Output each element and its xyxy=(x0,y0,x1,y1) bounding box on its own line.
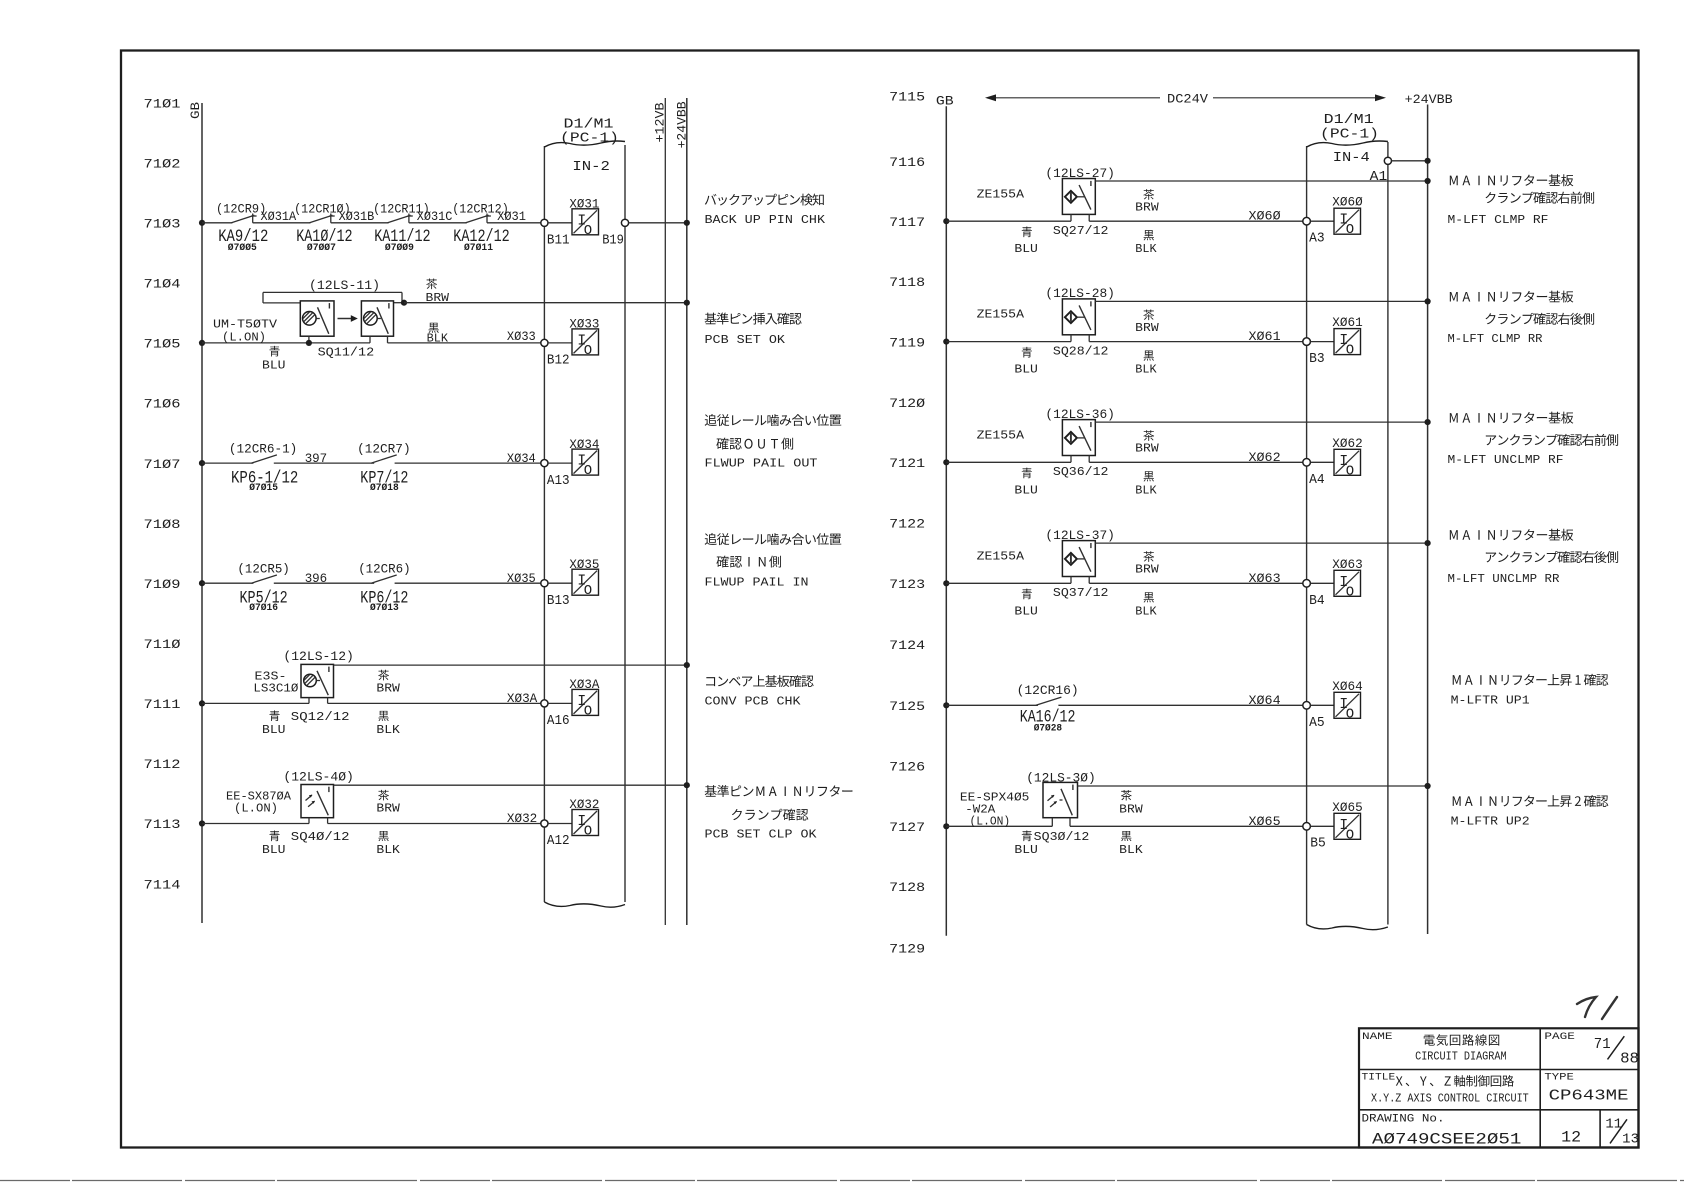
svg-text:BLK: BLK xyxy=(1135,483,1157,497)
svg-text:BLU: BLU xyxy=(1014,363,1038,377)
label BLU 7121 xyxy=(1022,468,1032,479)
svg-text:M-LFTR UP1: M-LFTR UP1 xyxy=(1451,694,1530,708)
terminal B11 xyxy=(541,219,548,226)
svg-text:XØ63: XØ63 xyxy=(1332,557,1362,572)
svg-text:(12CR9): (12CR9) xyxy=(216,201,266,216)
terminal B12 xyxy=(541,339,548,346)
wire 7103 xyxy=(409,222,467,224)
node +24VBB-7123 xyxy=(1425,540,1431,546)
svg-text:7112: 7112 xyxy=(144,757,181,772)
comment rung 7113 xyxy=(705,785,717,797)
contact KP5/12 xyxy=(251,575,277,583)
svg-text:XØ31B: XØ31B xyxy=(339,209,375,224)
svg-text:71Ø8: 71Ø8 xyxy=(144,517,181,532)
svg-text:B5: B5 xyxy=(1310,836,1326,852)
svg-text:O: O xyxy=(1346,584,1354,600)
node +24VBB-7105 xyxy=(684,300,690,306)
svg-text:7122: 7122 xyxy=(889,517,925,532)
stub left xyxy=(1070,335,1072,342)
wire 7127 right xyxy=(1070,825,1303,827)
svg-text:PCB SET CLP OK: PCB SET CLP OK xyxy=(705,828,818,842)
svg-text:O: O xyxy=(1346,463,1354,479)
connector box IN-2 xyxy=(543,146,545,902)
svg-text:SQ11/12: SQ11/12 xyxy=(318,346,375,360)
svg-text:IN-4: IN-4 xyxy=(1333,150,1370,166)
svg-text:O: O xyxy=(1346,343,1354,359)
I/O point XØ62 xyxy=(1334,449,1361,475)
stub left xyxy=(1070,456,1072,463)
wire to I/O xyxy=(548,823,572,825)
svg-text:O: O xyxy=(584,223,592,239)
node GB-7123 xyxy=(943,580,949,586)
wire IN-4 to +24VBB xyxy=(1392,160,1428,162)
svg-text:PAGE: PAGE xyxy=(1544,1031,1575,1043)
svg-text:(L.ON): (L.ON) xyxy=(222,331,266,345)
svg-text:SQ28/12: SQ28/12 xyxy=(1053,345,1109,359)
svg-text:A1: A1 xyxy=(1370,169,1388,185)
label BLK 7121 xyxy=(1144,471,1154,481)
svg-text:12: 12 xyxy=(1561,1128,1581,1146)
contact KP6/12 xyxy=(371,575,397,583)
svg-text:XØ34: XØ34 xyxy=(507,451,536,466)
label BRW 7121 xyxy=(1143,430,1154,441)
stub right xyxy=(1088,335,1090,342)
limit switch SQ40/12 box xyxy=(301,785,334,818)
label BRW 7113 xyxy=(378,790,389,801)
terminal B4 xyxy=(1303,580,1311,588)
svg-text:BLU: BLU xyxy=(1014,843,1038,857)
wire 7103 xyxy=(331,222,389,224)
svg-text:DC24V: DC24V xyxy=(1167,92,1208,107)
wire to I/O xyxy=(548,702,572,704)
svg-text:B11: B11 xyxy=(547,233,570,249)
svg-text:711Ø: 711Ø xyxy=(144,637,181,652)
svg-text:7111: 7111 xyxy=(144,697,181,712)
node GB-7103 xyxy=(199,220,205,226)
contact KA12/12 rung 7103 xyxy=(466,215,489,223)
svg-text:396: 396 xyxy=(305,571,328,586)
svg-text:XØ33: XØ33 xyxy=(507,329,536,344)
svg-text:71Ø4: 71Ø4 xyxy=(144,277,181,292)
label BRW 7105 xyxy=(426,279,437,290)
svg-text:Ø7Ø13: Ø7Ø13 xyxy=(370,602,399,614)
node GB-7119 xyxy=(943,339,949,345)
GB bus left xyxy=(201,103,203,923)
svg-text:M-LFT UNCLMP RR: M-LFT UNCLMP RR xyxy=(1448,572,1560,586)
terminal A16 xyxy=(541,700,548,707)
stub right xyxy=(1088,456,1090,463)
label BLK 7123 xyxy=(1144,592,1154,602)
svg-text:B19: B19 xyxy=(602,233,624,249)
I/O point XØ3A xyxy=(572,689,599,715)
svg-text:BRW: BRW xyxy=(1119,802,1143,816)
wire to I/O xyxy=(548,582,572,584)
svg-text:TYPE: TYPE xyxy=(1544,1071,1574,1083)
svg-text:A4: A4 xyxy=(1309,472,1325,488)
wire 7109 segment 1 xyxy=(202,582,253,584)
svg-text:B4: B4 xyxy=(1309,593,1325,609)
wire 7111 right xyxy=(328,702,541,704)
svg-text:FLWUP PAIL IN: FLWUP PAIL IN xyxy=(705,576,809,590)
label BLK 7127 xyxy=(1121,831,1131,841)
svg-text:O: O xyxy=(1346,222,1354,238)
svg-text:B12: B12 xyxy=(547,353,570,369)
svg-text:O: O xyxy=(584,583,592,599)
terminal B3 xyxy=(1303,338,1311,346)
wire to I/O xyxy=(1310,461,1334,463)
svg-text:7113: 7113 xyxy=(144,817,181,832)
svg-text:71Ø9: 71Ø9 xyxy=(144,577,181,592)
svg-text:A13: A13 xyxy=(547,473,570,489)
terminal IN-4 output xyxy=(1384,157,1391,164)
svg-text:XØ61: XØ61 xyxy=(1332,315,1363,330)
node +24VBB-7116 xyxy=(1425,158,1431,164)
svg-text:LS3C1Ø: LS3C1Ø xyxy=(253,681,298,695)
label BLU 7123 xyxy=(1022,589,1032,600)
wire BRW 7117 to +24VBB xyxy=(1095,180,1427,182)
wire BRW 7119 to +24VBB xyxy=(1095,300,1427,302)
svg-text:(12LS-12): (12LS-12) xyxy=(283,649,354,664)
label BLK 7117 xyxy=(1144,230,1154,240)
node GB-7109 xyxy=(199,580,205,586)
svg-text:SQ3Ø/12: SQ3Ø/12 xyxy=(1034,830,1090,844)
svg-text:(L.ON): (L.ON) xyxy=(234,801,278,815)
svg-text:71Ø2: 71Ø2 xyxy=(144,156,181,171)
comment rung 7123 xyxy=(1450,530,1458,540)
wire to I/O xyxy=(1310,825,1334,827)
wire B12 to I/O xyxy=(548,342,572,344)
stub SQ11 box2 right xyxy=(387,336,389,343)
stub left xyxy=(308,818,310,824)
svg-text:GB: GB xyxy=(936,94,954,109)
svg-text:XØ65: XØ65 xyxy=(1249,814,1281,829)
stub SQ11 box2 left xyxy=(369,336,371,343)
svg-text:O: O xyxy=(584,343,592,359)
svg-text:CONV PCB CHK: CONV PCB CHK xyxy=(705,695,802,709)
terminal A4 xyxy=(1303,459,1311,467)
svg-text:Ø7Ø15: Ø7Ø15 xyxy=(249,482,278,494)
svg-text:(L.ON): (L.ON) xyxy=(970,815,1011,829)
stub left xyxy=(1051,818,1053,827)
svg-text:BRW: BRW xyxy=(426,291,450,305)
label BLU 7119 xyxy=(1022,347,1032,358)
svg-text:7128: 7128 xyxy=(889,880,925,895)
svg-text:(12CR6): (12CR6) xyxy=(358,562,410,577)
svg-text:BRW: BRW xyxy=(1135,442,1159,456)
svg-text:7116: 7116 xyxy=(889,155,925,170)
wire B11 to I/O xyxy=(548,222,572,224)
limit switch SQ12/12 box xyxy=(301,664,334,697)
svg-text:(12CR5): (12CR5) xyxy=(237,562,289,577)
svg-text:BLK: BLK xyxy=(1135,604,1157,618)
svg-text:Ø7ØØ9: Ø7ØØ9 xyxy=(385,242,414,254)
svg-text:BLK: BLK xyxy=(427,332,449,346)
terminal B5 xyxy=(1303,823,1311,831)
node +24VBB-7117 xyxy=(1425,178,1431,184)
limit switch SQ11/12 box 1 xyxy=(300,301,334,336)
svg-text:BRW: BRW xyxy=(376,681,400,695)
svg-text:Ø7ØØ5: Ø7ØØ5 xyxy=(228,242,257,254)
svg-text:Ø7Ø18: Ø7Ø18 xyxy=(370,482,399,494)
node +24VBB-7111 xyxy=(684,662,690,668)
svg-text:7115: 7115 xyxy=(889,89,925,104)
svg-text:XØ61: XØ61 xyxy=(1249,329,1281,344)
svg-text:BACK UP PIN CHK: BACK UP PIN CHK xyxy=(705,213,826,227)
node +24VBB-7113 xyxy=(684,782,690,788)
wire 7103 xyxy=(253,222,311,224)
wire BRW 7113 to +24VBB xyxy=(334,784,687,786)
GB bus label xyxy=(188,102,203,119)
I/O point XØ34 xyxy=(572,449,599,475)
wire to I/O xyxy=(1310,704,1334,706)
svg-text:SQ12/12: SQ12/12 xyxy=(291,710,350,724)
label BLU 7113 xyxy=(269,831,279,842)
svg-text:(12LS-11): (12LS-11) xyxy=(309,278,380,293)
label BLK 7111 xyxy=(378,711,388,721)
node GB-7113 xyxy=(199,820,205,826)
wire BRW 7123 to +24VBB xyxy=(1095,542,1427,544)
svg-text:+24VBB: +24VBB xyxy=(674,101,689,148)
svg-text:71Ø1: 71Ø1 xyxy=(144,96,181,111)
svg-text:397: 397 xyxy=(305,451,328,466)
label BLK 7113 xyxy=(378,831,388,841)
svg-text:SQ36/12: SQ36/12 xyxy=(1053,465,1109,479)
+24VBB bus left xyxy=(686,98,688,925)
svg-text:(PC-1): (PC-1) xyxy=(560,131,619,147)
svg-text:BLK: BLK xyxy=(376,843,400,857)
svg-text:13: 13 xyxy=(1622,1132,1639,1147)
comment rung 7121 xyxy=(1450,413,1458,423)
svg-text:7126: 7126 xyxy=(889,760,925,775)
proximity switch SQ27/12 box xyxy=(1062,179,1095,215)
svg-text:XØ64: XØ64 xyxy=(1332,679,1363,694)
svg-text:7129: 7129 xyxy=(889,941,925,956)
svg-text:BLU: BLU xyxy=(262,358,286,372)
svg-text:7121: 7121 xyxy=(889,456,925,471)
svg-text:XØ63: XØ63 xyxy=(1249,571,1281,586)
svg-text:D1/M1: D1/M1 xyxy=(1324,112,1374,128)
connector box IN-4 xyxy=(1306,146,1308,925)
svg-text:BLU: BLU xyxy=(262,723,286,737)
svg-text:BLU: BLU xyxy=(262,843,286,857)
wire 7111 left xyxy=(202,702,309,704)
label BLU 7105 xyxy=(269,346,279,357)
DC24V range arrow xyxy=(987,97,1160,99)
svg-text:CP643ME: CP643ME xyxy=(1549,1087,1629,1104)
svg-text:XØ31A: XØ31A xyxy=(261,209,297,224)
label BLK 7105 xyxy=(428,323,438,333)
svg-text:ZE155A: ZE155A xyxy=(977,187,1025,201)
comment rung 7127 xyxy=(1453,796,1461,806)
svg-text:XØ62: XØ62 xyxy=(1332,436,1362,451)
wire to I/O xyxy=(1310,341,1334,343)
node GB-7111 xyxy=(199,700,205,706)
node GB-7117 xyxy=(943,218,949,224)
bracket for 12LS-11 xyxy=(263,291,402,293)
svg-text:B13: B13 xyxy=(547,593,570,609)
node GB-7121 xyxy=(943,459,949,465)
node +24VBB-7127 xyxy=(1425,783,1431,789)
node +24VBB-7119 xyxy=(1425,298,1431,304)
stub left xyxy=(1070,214,1072,221)
I/O point XØ31 xyxy=(572,209,599,235)
svg-text:ZE155A: ZE155A xyxy=(977,428,1025,442)
wire 7103 segment 1 xyxy=(202,222,232,224)
svg-text:O: O xyxy=(584,824,592,840)
svg-text:XØ31: XØ31 xyxy=(497,209,526,224)
limit switch SQ11/12 box 2 xyxy=(361,301,393,336)
wire 7125 segment 2 xyxy=(1058,704,1303,706)
wire 7105 left xyxy=(202,342,370,344)
wire 7117 right xyxy=(1089,220,1303,222)
svg-text:A5: A5 xyxy=(1309,715,1325,731)
stub right xyxy=(1069,818,1071,827)
svg-text:(PC-1): (PC-1) xyxy=(1320,127,1379,143)
svg-text:(12LS-4Ø): (12LS-4Ø) xyxy=(283,769,354,784)
stub right xyxy=(1088,577,1090,584)
I/O point XØ32 xyxy=(572,810,599,836)
svg-text:BLU: BLU xyxy=(1014,604,1038,618)
contact KA10/12 rung 7103 xyxy=(310,215,333,223)
I/O point XØ64 xyxy=(1334,692,1361,718)
wire 7119 right xyxy=(1089,341,1303,343)
svg-text:GB: GB xyxy=(188,102,203,119)
svg-text:XØ3A: XØ3A xyxy=(569,677,599,692)
terminal A13 xyxy=(541,460,548,467)
wire 7123 left xyxy=(946,582,1071,584)
svg-text:AØ749CSEE2Ø51: AØ749CSEE2Ø51 xyxy=(1372,1131,1521,1149)
terminal A5 xyxy=(1303,702,1311,710)
svg-text:(12CR16): (12CR16) xyxy=(1017,683,1079,698)
svg-text:XØ31C: XØ31C xyxy=(417,209,453,224)
svg-text:7118: 7118 xyxy=(889,275,925,290)
svg-text:XØ31: XØ31 xyxy=(569,197,599,212)
svg-text:B3: B3 xyxy=(1309,351,1325,367)
wire to I/O xyxy=(548,462,572,464)
node SQ11-7105 xyxy=(306,340,312,346)
svg-text:7119: 7119 xyxy=(889,335,925,350)
svg-text:SQ4Ø/12: SQ4Ø/12 xyxy=(291,830,350,844)
svg-text:XØ6Ø: XØ6Ø xyxy=(1332,195,1363,210)
svg-text:TITLE: TITLE xyxy=(1362,1071,1396,1083)
svg-text:+12VB: +12VB xyxy=(653,102,668,142)
svg-text:XØ64: XØ64 xyxy=(1249,693,1281,708)
label BLU 7117 xyxy=(1022,227,1032,238)
svg-text:71Ø6: 71Ø6 xyxy=(144,397,181,412)
GB bus right xyxy=(945,106,947,936)
node GB-7127 xyxy=(943,823,949,829)
svg-text:XØ6Ø: XØ6Ø xyxy=(1249,209,1281,224)
wire BRW 7105 to +24VBB xyxy=(404,302,687,304)
wire 7127 left xyxy=(946,825,1052,827)
svg-text:71: 71 xyxy=(1594,1036,1611,1053)
svg-text:BLK: BLK xyxy=(376,723,400,737)
svg-text:7114: 7114 xyxy=(144,877,181,892)
wire 7119 left xyxy=(946,341,1071,343)
wire BRW 7127 to +24VBB xyxy=(1078,785,1428,787)
svg-text:M-LFT CLMP RF: M-LFT CLMP RF xyxy=(1448,213,1549,227)
wire 7107 segment 3 xyxy=(395,462,541,464)
label BLU 7127 xyxy=(1022,831,1032,842)
svg-text:712Ø: 712Ø xyxy=(889,396,925,411)
svg-text:XØ32: XØ32 xyxy=(569,797,599,812)
label BLK 7119 xyxy=(1144,351,1154,361)
wire BRW 7111 to +24VBB xyxy=(334,664,687,666)
svg-text:Ø7Ø11: Ø7Ø11 xyxy=(464,242,493,254)
svg-text:BLU: BLU xyxy=(1014,483,1038,497)
svg-text:M-LFT UNCLMP RF: M-LFT UNCLMP RF xyxy=(1448,453,1564,467)
svg-text:SQ27/12: SQ27/12 xyxy=(1053,224,1109,238)
stub SQ11 box1 xyxy=(308,336,310,343)
contact KA9/12 rung 7103 xyxy=(231,215,254,223)
stub left xyxy=(1070,577,1072,584)
terminal B19 xyxy=(621,219,628,226)
svg-text:ZE155A: ZE155A xyxy=(977,549,1025,563)
svg-text:XØ33: XØ33 xyxy=(569,317,599,332)
svg-text:XØ35: XØ35 xyxy=(569,557,599,572)
wire BRW 7121 to +24VBB xyxy=(1095,421,1427,423)
I/O point XØ63 xyxy=(1334,570,1361,596)
svg-text:7123: 7123 xyxy=(889,577,925,592)
svg-text:71Ø5: 71Ø5 xyxy=(144,337,181,352)
comment rung 7125 xyxy=(1453,675,1461,685)
svg-text:71Ø3: 71Ø3 xyxy=(144,217,181,232)
comment rung 7117 xyxy=(1450,176,1458,186)
svg-text:XØ35: XØ35 xyxy=(507,571,536,586)
stub right xyxy=(327,818,329,824)
svg-text:BLU: BLU xyxy=(1014,242,1038,256)
svg-text:PCB SET OK: PCB SET OK xyxy=(705,333,786,347)
svg-text:A3: A3 xyxy=(1309,231,1325,247)
svg-text:BLK: BLK xyxy=(1135,363,1157,377)
svg-text:SQ37/12: SQ37/12 xyxy=(1053,586,1109,600)
label BRW 7117 xyxy=(1143,189,1154,200)
comment rung 7119 xyxy=(1450,292,1458,302)
node GB-7107 xyxy=(199,460,205,466)
svg-text:88: 88 xyxy=(1620,1051,1639,1068)
comment rung 7105 xyxy=(705,313,717,325)
node +24VBB-7103 xyxy=(684,220,690,226)
wire 7109 segment 2 xyxy=(274,582,374,584)
wire 7113 right xyxy=(328,823,541,825)
label BRW 7127 xyxy=(1121,790,1132,801)
node GB-7105 xyxy=(199,340,205,346)
svg-text:M-LFTR UP2: M-LFTR UP2 xyxy=(1451,815,1530,829)
svg-text:BRW: BRW xyxy=(1135,201,1159,215)
svg-text:7124: 7124 xyxy=(889,638,925,653)
svg-text:XØ62: XØ62 xyxy=(1249,450,1281,465)
wire 7113 left xyxy=(202,823,309,825)
wire 7103 to connector xyxy=(487,222,541,224)
svg-text:O: O xyxy=(584,703,592,719)
svg-text:XØ34: XØ34 xyxy=(569,437,599,452)
svg-text:A16: A16 xyxy=(547,713,570,729)
svg-text:O: O xyxy=(584,463,592,479)
+24VBB label left xyxy=(674,101,689,148)
svg-text:+24VBB: +24VBB xyxy=(1405,92,1453,107)
comment rung 7109 xyxy=(705,533,717,545)
svg-text:BRW: BRW xyxy=(1135,321,1159,335)
terminal B13 xyxy=(541,580,548,587)
svg-text:BLK: BLK xyxy=(1135,242,1157,256)
wire B19 to +24VBB xyxy=(629,222,687,224)
wire 7107 segment 2 xyxy=(274,462,374,464)
label BLU 7111 xyxy=(269,710,279,721)
proximity switch SQ28/12 box xyxy=(1062,299,1095,335)
svg-text:O: O xyxy=(1346,827,1354,843)
I/O point XØ65 xyxy=(1334,813,1361,839)
svg-text:XØ65: XØ65 xyxy=(1332,800,1362,815)
